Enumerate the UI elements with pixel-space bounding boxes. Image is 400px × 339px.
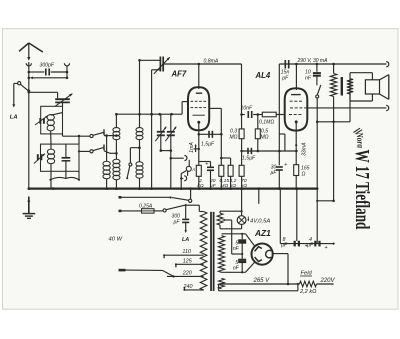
varcap2 C7 (62, 144, 71, 178)
switch S3 (126, 146, 141, 179)
svg-text:AZ1: AZ1 (254, 228, 271, 238)
wire 121 (317, 121, 350, 123)
winding heater2 (219, 278, 225, 288)
svg-text:+: + (325, 245, 328, 251)
wire AZ1 out (273, 254, 290, 286)
bandfilter2 box (41, 144, 80, 171)
field coil Feld (299, 271, 336, 295)
svg-text:40 W: 40 W (109, 237, 123, 243)
wire 265V (219, 278, 300, 284)
grid trimmer C6 (152, 56, 171, 74)
mark slashes (354, 128, 363, 134)
svg-text:220: 220 (182, 270, 192, 276)
wire lamp row (220, 210, 243, 213)
label 1mA (189, 142, 196, 153)
wire L1 to bandfilter2 (50, 134, 52, 144)
label 15n (281, 70, 290, 82)
capacitor 10nF AL4 (305, 64, 321, 85)
svg-text:pF: pF (281, 76, 289, 82)
trimmer C5 (165, 114, 177, 188)
capacitor 1,5uF a (199, 131, 222, 148)
resistor 3,2k (221, 158, 236, 189)
svg-text:+: + (284, 162, 287, 168)
coil L5A (113, 114, 120, 159)
jack chain (171, 156, 195, 190)
svg-text:1,5µF: 1,5µF (201, 142, 215, 148)
wire w2 bottom (222, 262, 255, 273)
resistor 165 (294, 122, 310, 189)
wire to varcap1 (29, 92, 58, 98)
switch S1 (90, 129, 104, 137)
capacitor 300pF b (172, 205, 190, 243)
svg-text:AF7: AF7 (171, 70, 187, 79)
mains switch A (172, 187, 192, 202)
svg-text:10nF: 10nF (241, 106, 253, 112)
coil L4 column (103, 136, 110, 189)
selector wiper (119, 270, 174, 276)
capacitor 300pF (29, 69, 67, 76)
switch LA (14, 82, 29, 92)
wire row 151 (242, 150, 298, 153)
wire box2 right up (78, 135, 81, 180)
svg-text:µF: µF (281, 243, 288, 249)
column 0,3M (239, 64, 244, 165)
wire trimmer link (161, 150, 171, 152)
fuse 0,25A (139, 203, 154, 213)
output transformer (342, 73, 373, 122)
svg-text:MΩ: MΩ (229, 134, 237, 140)
capacitor 20uF (199, 161, 217, 189)
trimmer C2 (35, 115, 49, 125)
svg-text:MΩ: MΩ (260, 134, 268, 140)
mains switch B (163, 205, 185, 212)
switch tone (316, 85, 321, 244)
wire fuse switch (154, 210, 163, 212)
svg-text:LA: LA (10, 114, 18, 120)
svg-text:1,5µF: 1,5µF (242, 156, 256, 162)
mains terminal 1 (119, 210, 142, 213)
svg-text:+: + (205, 161, 208, 167)
svg-text:1mA: 1mA (189, 142, 195, 153)
screen wire AF7 (209, 108, 222, 135)
svg-text:300pF: 300pF (40, 63, 55, 69)
antenna (19, 43, 43, 66)
trimmer C3 (34, 153, 46, 164)
capacitor 8uF (281, 237, 308, 250)
label AL4 (255, 71, 271, 80)
wire to transformer (185, 204, 200, 206)
svg-text:0,8mA: 0,8mA (204, 59, 219, 65)
resistor zigzag (330, 64, 336, 202)
trimmer C4 (155, 114, 167, 152)
capacitor 30uF (270, 151, 287, 189)
label 290V,30mA (297, 58, 329, 64)
transformer core (211, 212, 214, 291)
resistor 0,1M (259, 112, 286, 125)
resistor 70k (239, 165, 247, 189)
wire jack2 down (66, 67, 69, 78)
resistor 2k (196, 165, 204, 189)
cathode AF7 (198, 122, 201, 165)
svg-text:110: 110 (182, 249, 191, 255)
label Nora (354, 131, 365, 148)
svg-text:125: 125 (183, 258, 193, 264)
svg-text:2,2 kΩ: 2,2 kΩ (299, 289, 317, 295)
winding w1 tap (222, 219, 231, 254)
label 0,3M (229, 129, 237, 141)
wire grid AF7 (115, 113, 182, 116)
svg-text:290 V, 30 mA: 290 V, 30 mA (297, 58, 329, 64)
label AF7 (171, 70, 187, 79)
svg-text:µF: µF (307, 243, 314, 249)
label 40W (109, 237, 123, 243)
svg-text:W 17 Tiefland: W 17 Tiefland (351, 150, 373, 230)
resistor 0,15M (219, 134, 230, 189)
label 10nF (241, 106, 253, 112)
column x151 (150, 70, 153, 189)
capacitor 1,5uF b (242, 148, 256, 162)
label 33mA (295, 142, 307, 156)
svg-text:240: 240 (183, 284, 193, 290)
rail 290V (279, 63, 386, 66)
tube AZ1 (252, 244, 273, 265)
svg-text:A: A (191, 167, 195, 172)
capacitor 4uF (307, 237, 328, 251)
anode rail AF7 (138, 59, 241, 65)
label lamp (247, 217, 270, 225)
dial lamp (220, 211, 246, 229)
label 0,8mA (204, 59, 219, 65)
resistor 0,5M (255, 115, 268, 153)
coil L2 (47, 144, 54, 189)
coil L5B (113, 159, 120, 188)
label W17 Tiefland (351, 150, 373, 230)
caps row wire (280, 243, 334, 245)
wire bus caps (280, 189, 297, 244)
stub x258 (258, 189, 260, 204)
tap 125 (175, 258, 204, 267)
svg-text:220V: 220V (320, 278, 336, 284)
switch S1 out (104, 134, 118, 137)
svg-text:nF: nF (233, 266, 240, 272)
switch S2 out (104, 151, 118, 155)
wire S1 feed (63, 134, 91, 136)
ground symbol (23, 197, 36, 219)
grid jog AF7 (182, 102, 188, 115)
svg-text:nF: nF (233, 246, 240, 252)
winding heater1 (217, 213, 223, 225)
svg-text:0,1MΩ: 0,1MΩ (259, 119, 274, 125)
capacitor 5nF a (233, 234, 246, 259)
tap 240 (183, 284, 204, 291)
mains row A (119, 196, 172, 198)
coil L6A (136, 60, 143, 162)
svg-text:nF: nF (305, 76, 312, 82)
svg-text:pF: pF (173, 220, 181, 226)
gang coupling brace (49, 177, 80, 180)
wire cathode stub (194, 148, 201, 150)
label 300pF (40, 63, 55, 69)
svg-text:Nora: Nora (354, 131, 365, 148)
LA arrow (12, 83, 15, 107)
speaker (365, 73, 388, 101)
capacitor 5nF b (233, 260, 246, 273)
wire w2 tap (232, 253, 244, 255)
tap 220 (167, 270, 204, 277)
tube AF7 (188, 64, 209, 130)
svg-text:4V,0,5A: 4V,0,5A (250, 218, 270, 224)
bandfilter1 box (41, 106, 63, 134)
wire bus lamp (241, 189, 243, 212)
label AZ1 (254, 228, 271, 238)
svg-text:265 V: 265 V (253, 278, 271, 284)
wire heater AZ1 (219, 283, 299, 291)
variable capacitor C1 (55, 92, 73, 106)
ground bus (27, 187, 317, 190)
plug hook bottom (386, 105, 389, 110)
switch S2 (78, 145, 104, 153)
svg-text:AL4: AL4 (255, 71, 271, 80)
transformer primary (199, 205, 207, 290)
wire w2 top (222, 233, 255, 246)
wire 15n down (279, 64, 285, 151)
coil L1 (47, 113, 62, 134)
coil L6B (136, 162, 143, 189)
winding HV (218, 236, 224, 273)
wire 200 (317, 200, 333, 202)
wire row2 (30, 76, 68, 79)
wire antenna row1 (27, 62, 30, 94)
left column (28, 92, 30, 189)
antenna jack 2 (64, 63, 69, 66)
svg-text:Ω: Ω (302, 171, 306, 177)
plug hook top (386, 62, 389, 67)
svg-text:LA: LA (182, 237, 189, 243)
svg-text:µF: µF (270, 170, 277, 176)
rail speaker return (307, 107, 386, 109)
tube AL4 (285, 64, 308, 131)
capacitor 10nF (242, 111, 263, 118)
capacitor 15n (285, 60, 288, 69)
svg-text:33mA: 33mA (301, 142, 307, 156)
svg-text:0,25A: 0,25A (139, 203, 153, 209)
tap 110 (163, 249, 204, 258)
label LA (10, 114, 18, 120)
